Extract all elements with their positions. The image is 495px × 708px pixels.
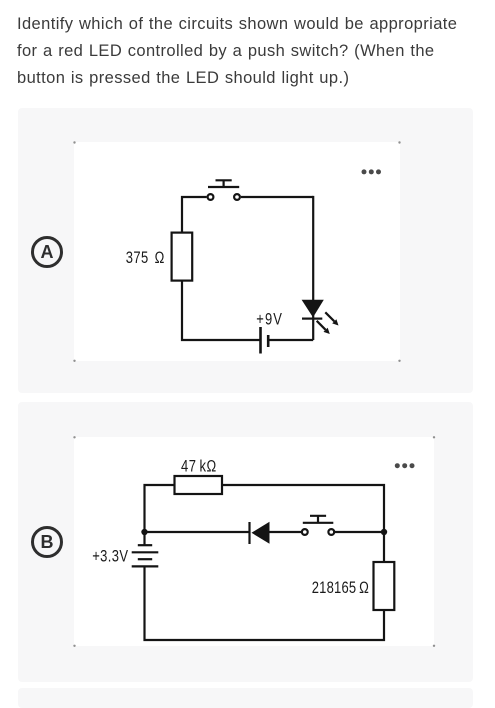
resistor R1 xyxy=(172,233,193,281)
svg-text:47 kΩ: 47 kΩ xyxy=(181,458,217,476)
svg-text:+9V: +9V xyxy=(256,311,283,329)
badge B xyxy=(31,526,63,558)
resistor R3 xyxy=(374,562,395,610)
LED D1 emission arrow 1 xyxy=(325,312,338,325)
diode D2 xyxy=(248,522,269,544)
menu dots card B xyxy=(395,463,415,468)
svg-text:218165 Ω: 218165 Ω xyxy=(312,580,369,598)
card B white canvas xyxy=(74,437,434,646)
wire A bottom-right segment xyxy=(268,339,313,341)
panel B background xyxy=(18,402,473,682)
card A white canvas xyxy=(74,142,400,361)
panel C background (partial) xyxy=(18,688,473,708)
resistor R2 xyxy=(175,476,223,494)
question text xyxy=(17,11,487,92)
wire B middle segment diode to switch xyxy=(270,531,303,533)
wire B bottom segment xyxy=(145,567,385,640)
panel A background xyxy=(18,108,473,393)
wire B top-left segment xyxy=(145,485,175,545)
menu dots card A xyxy=(362,169,382,174)
card corner marks xyxy=(73,141,435,647)
wire A bottom-left segment xyxy=(182,281,261,340)
push switch S2 xyxy=(302,516,334,535)
svg-text:375 Ω: 375 Ω xyxy=(126,250,165,268)
wire A top-left segment xyxy=(182,197,207,233)
wire B top-right segment xyxy=(222,485,384,562)
wire B middle-right segment xyxy=(334,531,384,533)
LED D1 xyxy=(302,300,324,320)
wire B middle-left segment xyxy=(145,531,250,533)
wire A right vertical xyxy=(312,196,314,340)
svg-text:+3.3V: +3.3V xyxy=(92,548,128,566)
junction node right xyxy=(381,529,387,535)
push switch S1 xyxy=(208,180,240,200)
junction node left xyxy=(141,529,147,535)
battery V1 xyxy=(261,327,269,354)
badge A xyxy=(31,236,63,268)
battery V2 xyxy=(132,545,159,566)
LED D1 emission arrow 2 xyxy=(317,321,330,334)
wire A top-right segment xyxy=(241,196,313,198)
